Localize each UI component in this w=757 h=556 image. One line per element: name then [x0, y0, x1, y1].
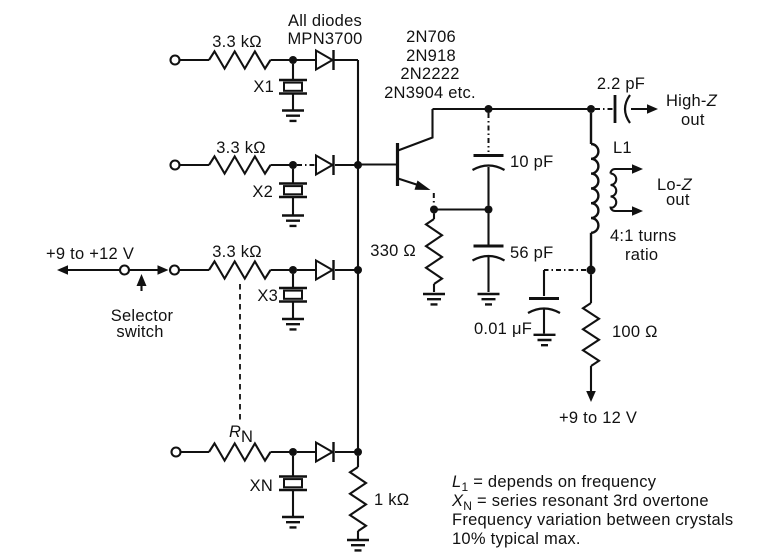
- svg-text:X3: X3: [257, 287, 278, 305]
- svg-text:+9 to 12 V: +9 to 12 V: [559, 409, 637, 427]
- svg-text:High-Z: High-Z: [666, 92, 718, 110]
- svg-text:All diodes: All diodes: [288, 12, 362, 30]
- svg-text:XN = series resonant 3rd overt: XN = series resonant 3rd overtone: [451, 492, 709, 513]
- svg-text:330 Ω: 330 Ω: [370, 242, 416, 260]
- svg-text:N: N: [241, 428, 253, 446]
- svg-text:10 pF: 10 pF: [510, 153, 553, 171]
- svg-text:Frequency variation between cr: Frequency variation between crystals: [452, 511, 733, 529]
- svg-text:4:1 turns: 4:1 turns: [610, 227, 676, 245]
- svg-text:2N918: 2N918: [406, 47, 456, 65]
- svg-text:ratio: ratio: [625, 246, 658, 264]
- svg-text:2.2 pF: 2.2 pF: [597, 75, 645, 93]
- svg-text:switch: switch: [116, 323, 163, 341]
- svg-text:0.01 μF: 0.01 μF: [474, 320, 532, 338]
- svg-text:10% typical max.: 10% typical max.: [452, 530, 581, 548]
- svg-text:X2: X2: [252, 183, 273, 201]
- svg-text:X1: X1: [253, 78, 274, 96]
- svg-text:out: out: [666, 191, 690, 209]
- svg-text:2N706: 2N706: [406, 28, 456, 46]
- svg-text:2N3904 etc.: 2N3904 etc.: [384, 84, 476, 102]
- svg-text:3.3 kΩ: 3.3 kΩ: [212, 33, 262, 51]
- svg-text:2N2222: 2N2222: [400, 65, 459, 83]
- svg-text:R: R: [229, 423, 241, 441]
- svg-text:100 Ω: 100 Ω: [612, 323, 658, 341]
- svg-text:3.3 kΩ: 3.3 kΩ: [212, 243, 262, 261]
- svg-text:out: out: [681, 111, 705, 129]
- svg-text:56 pF: 56 pF: [510, 244, 553, 262]
- svg-text:3.3 kΩ: 3.3 kΩ: [216, 139, 266, 157]
- svg-text:XN: XN: [250, 477, 273, 495]
- svg-text:L1 = depends on frequency: L1 = depends on frequency: [452, 473, 657, 494]
- svg-text:MPN3700: MPN3700: [287, 30, 362, 48]
- svg-text:+9 to +12 V: +9 to +12 V: [46, 245, 134, 263]
- svg-text:1 kΩ: 1 kΩ: [374, 491, 409, 509]
- svg-text:L1: L1: [613, 139, 632, 157]
